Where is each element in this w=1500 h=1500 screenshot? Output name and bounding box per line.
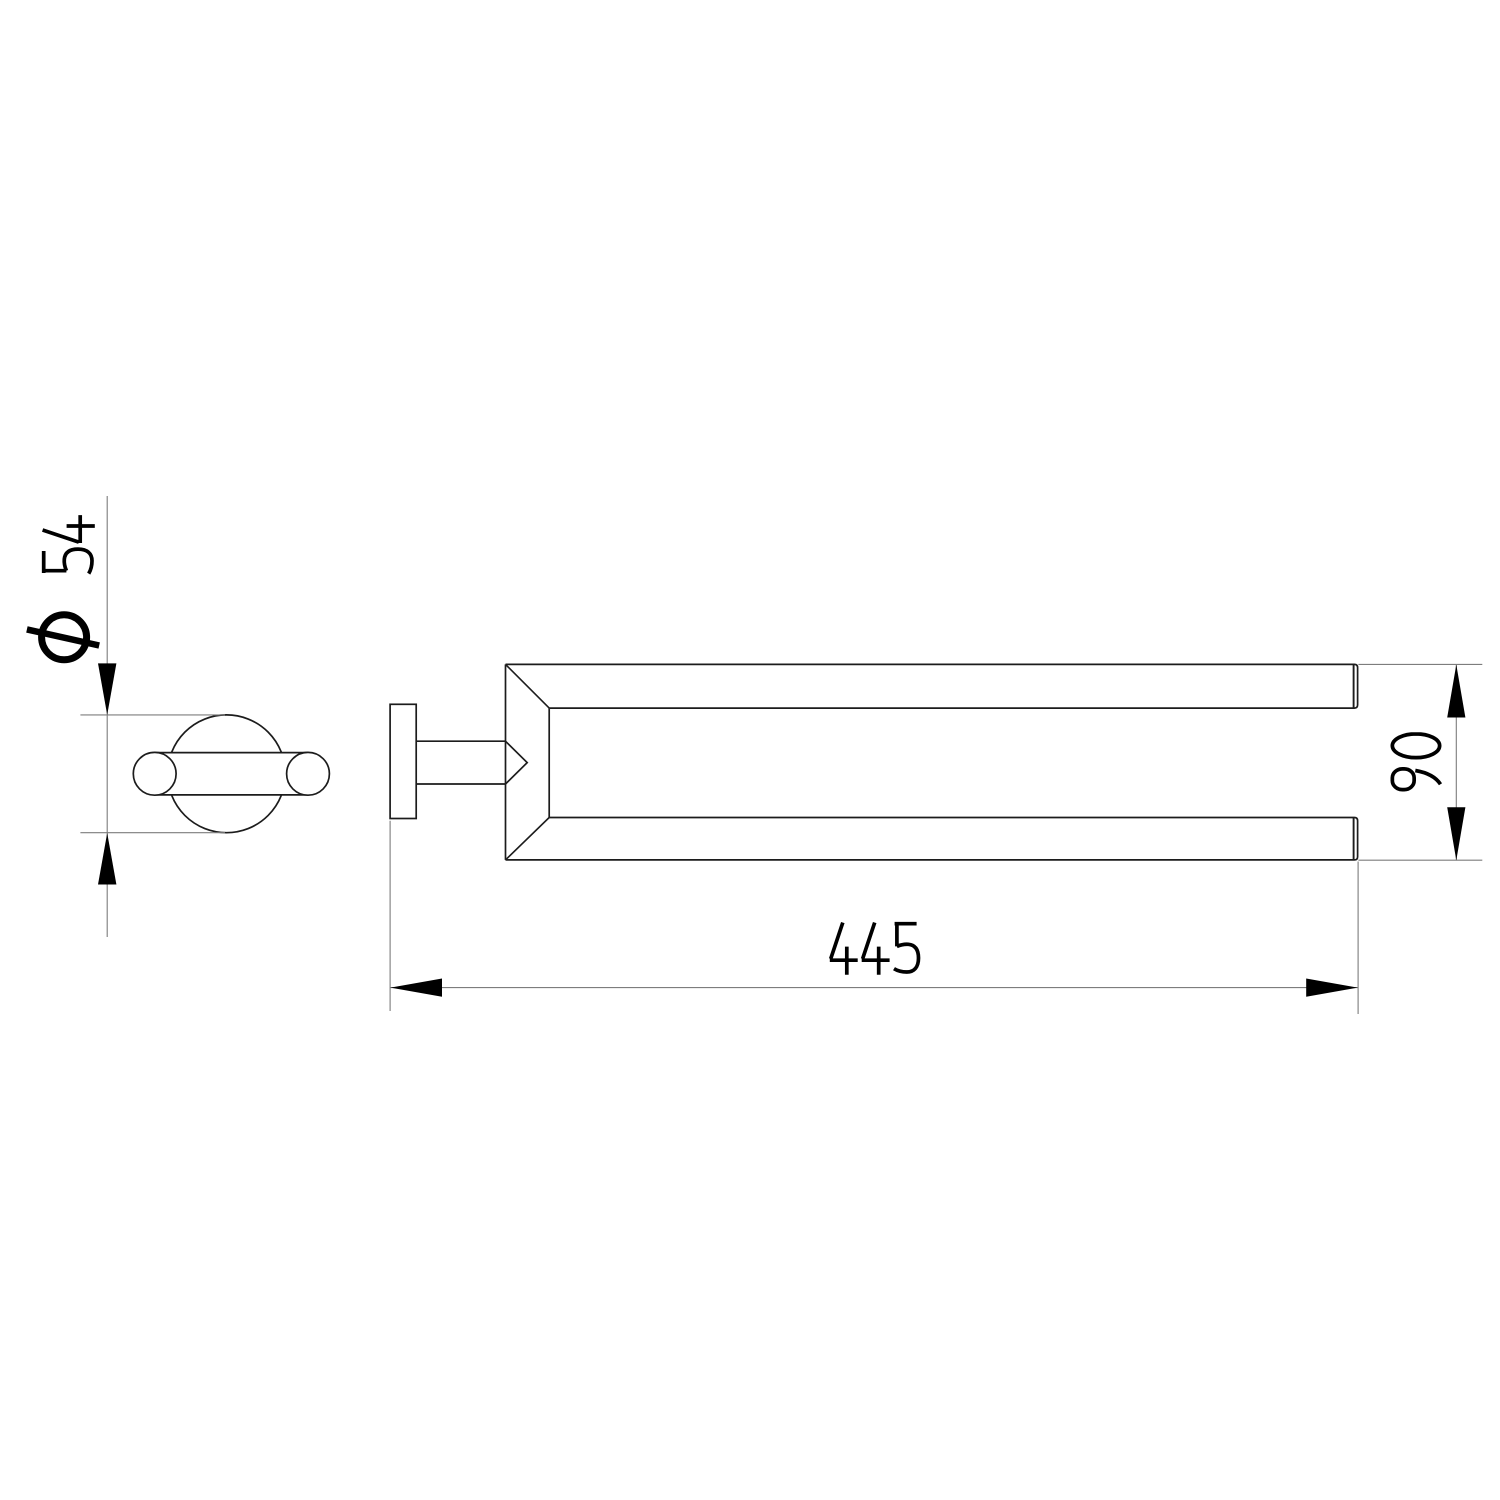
left view: bar top edge [155,752,308,754]
dim 90: bottom arrow (points down) [1447,807,1465,860]
dim Ø54: upper arrow (points down) [98,663,116,715]
left view: right bar end cap circle [287,752,330,795]
digit 4 [862,923,890,975]
dim 90: top arrow (points up) [1447,665,1465,718]
digit 0 [1392,734,1439,758]
dim 445: label text (drawn as DIN-style stroked glyphs) [830,923,919,975]
dim Ø54: label text (drawn as DIN-style stroked glyphs, rotated -90) [27,515,99,660]
left view: bar body white mask [155,753,308,795]
left view: bar bottom edge [155,794,308,796]
side view: fork left outer edge [505,664,507,860]
dim 90: top extension line [1358,663,1482,665]
dim 90: vertical dimension line [1455,664,1457,860]
digit 5 [44,549,92,574]
dim 90: label text (drawn as DIN-style stroked glyphs, rotated -90) [1392,734,1440,790]
dim Ø54: top extension line [80,714,225,716]
side view: fork inner vertical edge [548,708,550,817]
diameter symbol circle [42,615,87,660]
dim Ø54: vertical dimension line [106,496,108,937]
side view: pivot chevron point [506,741,528,784]
side view: top bar end cap seam [1353,664,1355,708]
side view: pivot stem top edge [416,740,505,742]
dim 445: right extension line [1357,862,1359,1015]
side view: top bar outline (top edge, rounded right cap, bottom edge) [506,664,1358,708]
diameter symbol slash [27,629,99,645]
left view: wall rosette circle [168,715,286,833]
dim 445: left arrow (points left) [391,979,443,997]
left view: left bar end cap circle [133,752,176,795]
digit 4 [830,923,858,975]
side view: bottom bar outline (top edge, rounded right cap, bottom edge) [506,818,1358,860]
dim 445: right arrow (points right) [1306,979,1358,997]
dim 90: bottom extension line [1358,859,1482,861]
dim 445: left extension line [389,821,391,1011]
side view: wall plate [390,704,416,818]
dim 445: horizontal dimension line [390,987,1358,989]
dim Ø54: lower arrow (points up) [98,833,116,885]
dim Ø54: bottom extension line [80,832,225,834]
side view: bottom bar end cap seam [1353,818,1355,860]
side view: pivot stem bottom edge [416,783,505,785]
digit 4 [43,515,95,543]
digit 9 [1392,769,1440,790]
side view: bottom-left chamfer diagonal [506,818,550,860]
digit 5 [894,924,919,972]
side view: top-left chamfer diagonal [506,664,550,708]
